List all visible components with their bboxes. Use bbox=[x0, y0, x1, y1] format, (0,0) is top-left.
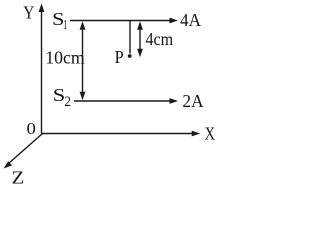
svg-text:10cm: 10cm bbox=[45, 47, 84, 67]
vertical wire segment down to point P bbox=[129, 21, 131, 54]
X axis bbox=[42, 131, 201, 137]
Z axis bbox=[4, 134, 43, 169]
svg-text:0: 0 bbox=[27, 119, 36, 138]
Y axis bbox=[39, 4, 45, 134]
svg-text:4cm: 4cm bbox=[146, 29, 174, 49]
svg-text:Y: Y bbox=[23, 3, 34, 23]
svg-text:2: 2 bbox=[64, 94, 71, 110]
svg-text:Z: Z bbox=[12, 168, 25, 184]
point P dot bbox=[128, 54, 132, 58]
wire S1 (current 4A) bbox=[70, 18, 178, 24]
svg-text:X: X bbox=[205, 124, 215, 144]
wire S2 (current 2A) bbox=[74, 98, 178, 104]
svg-text:2A: 2A bbox=[182, 91, 203, 111]
svg-text:P: P bbox=[115, 47, 124, 67]
svg-text:1: 1 bbox=[63, 18, 67, 33]
svg-text:4A: 4A bbox=[180, 10, 201, 30]
4cm dimension double arrow from S1 wire to P level bbox=[137, 21, 143, 57]
10cm dimension double arrow between S1 and S2 bbox=[80, 21, 86, 100]
